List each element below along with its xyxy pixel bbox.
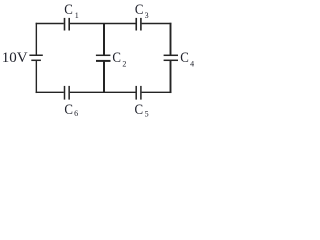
svg-text:C4: C4 [180, 50, 194, 68]
capacitor C4 plates [164, 54, 178, 56]
wire bottom-right segment [142, 91, 172, 93]
capacitor C1 plates [64, 18, 66, 31]
wire right upper segment [170, 23, 172, 56]
svg-text:C6: C6 [64, 102, 78, 118]
wire bottom-middle segment [70, 91, 136, 93]
svg-text:10V: 10V [2, 50, 28, 66]
wire middle lower segment [103, 61, 105, 92]
battery V1 short plate [31, 59, 41, 61]
svg-text:C2: C2 [112, 50, 126, 69]
svg-text:C1: C1 [64, 2, 79, 20]
capacitor C5 plates [135, 86, 137, 100]
wire middle upper segment [103, 24, 105, 56]
wire right lower segment [170, 60, 172, 93]
capacitor C3 plates [135, 18, 137, 31]
battery V1 long plate [29, 54, 42, 56]
wire top-right segment [142, 23, 172, 25]
capacitor C6 plates [64, 86, 66, 100]
wire left upper segment [35, 23, 37, 55]
capacitor C2 plates [96, 54, 111, 56]
svg-text:C5: C5 [135, 102, 149, 119]
wire bottom-left segment [36, 91, 64, 93]
svg-text:C3: C3 [135, 2, 149, 20]
wire top-left segment [36, 23, 64, 25]
wire top-middle segment [70, 23, 136, 25]
wire left lower segment [35, 60, 37, 93]
